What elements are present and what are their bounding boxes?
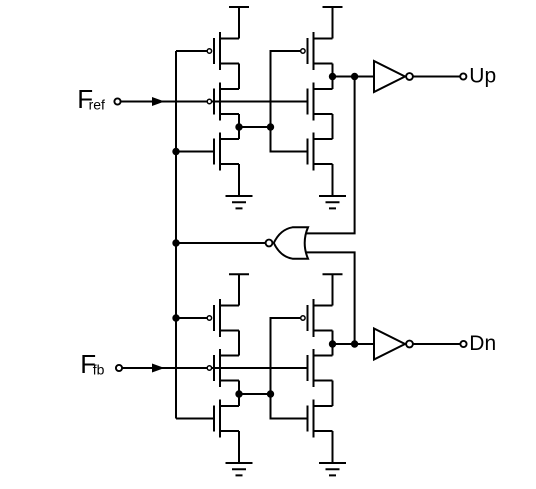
svg-text:ref: ref (89, 97, 105, 113)
svg-text:Up: Up (469, 65, 496, 88)
svg-text:fb: fb (93, 362, 105, 378)
svg-text:Dn: Dn (469, 332, 496, 355)
